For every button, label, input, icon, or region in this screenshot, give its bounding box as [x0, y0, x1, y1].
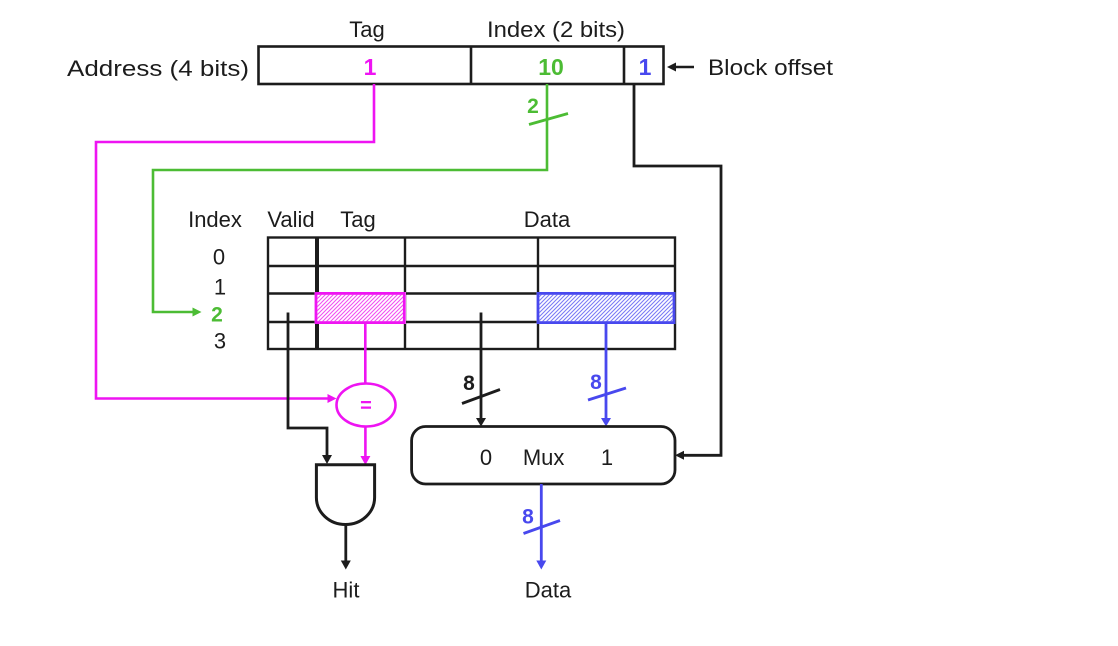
wire tag cell to comparator (magenta): [364, 323, 367, 384]
wire valid bit (black) from row 2 to AND gate: [288, 313, 332, 465]
address register box: [259, 47, 664, 85]
wire block offset (black) from address to mux select: [634, 84, 721, 460]
bus slash 8 (blue, mux output): [524, 521, 561, 534]
svg-text:10: 10: [538, 54, 564, 80]
svg-text:Valid: Valid: [267, 207, 314, 232]
bus slash 8 (blue, data byte 1): [588, 388, 626, 400]
svg-text:2: 2: [211, 304, 223, 327]
svg-text:Address (4 bits): Address (4 bits): [67, 56, 249, 81]
divider tag/index: [470, 47, 473, 85]
svg-text:1: 1: [639, 54, 652, 80]
svg-text:Data: Data: [524, 207, 571, 232]
comparator U1 (magenta ellipse =): [337, 384, 396, 427]
svg-text:0: 0: [213, 245, 225, 270]
svg-text:Block offset: Block offset: [708, 55, 833, 80]
bus slash 8 (black): [462, 390, 500, 404]
svg-text:8: 8: [463, 372, 475, 395]
AND gate: [316, 465, 374, 525]
wire comparator to AND gate (magenta): [360, 427, 370, 466]
svg-text:Index: Index: [188, 207, 242, 232]
svg-text:8: 8: [522, 506, 534, 529]
arrow block offset to field: [667, 63, 694, 72]
highlighted data cell row 2 (blue hatched): [537, 292, 676, 324]
cache table grid: [268, 238, 675, 350]
wire tag (magenta) from address to comparator: [96, 84, 374, 403]
svg-text:0: 0: [480, 445, 492, 470]
svg-text:Index (2 bits): Index (2 bits): [487, 17, 625, 42]
svg-text:Hit: Hit: [333, 578, 360, 603]
svg-text:2: 2: [527, 95, 539, 118]
svg-text:3: 3: [214, 329, 226, 354]
bus slash 2 bits (green): [529, 114, 568, 125]
svg-text:1: 1: [601, 445, 613, 470]
svg-text:8: 8: [590, 371, 602, 394]
wire data byte 1 (blue) from row 2 to mux: [601, 323, 611, 427]
svg-text:1: 1: [214, 275, 226, 300]
svg-text:Mux: Mux: [523, 445, 565, 470]
svg-text:1: 1: [364, 54, 377, 80]
divider index/offset: [623, 47, 626, 85]
wire data byte 0 (black) from row 2 to mux: [476, 313, 486, 427]
wire mux output to Data (blue): [536, 484, 546, 570]
cache table thick separator after valid column: [315, 238, 319, 350]
highlighted tag cell row 2 (magenta hatched): [315, 292, 407, 324]
svg-text:=: =: [360, 395, 372, 417]
mux U2: [412, 427, 675, 485]
svg-text:Data: Data: [525, 578, 572, 603]
wire index (green) from address to row 2: [153, 84, 547, 317]
svg-text:Tag: Tag: [340, 207, 375, 232]
svg-text:Tag: Tag: [349, 17, 384, 42]
wire AND gate output to Hit: [341, 525, 351, 570]
